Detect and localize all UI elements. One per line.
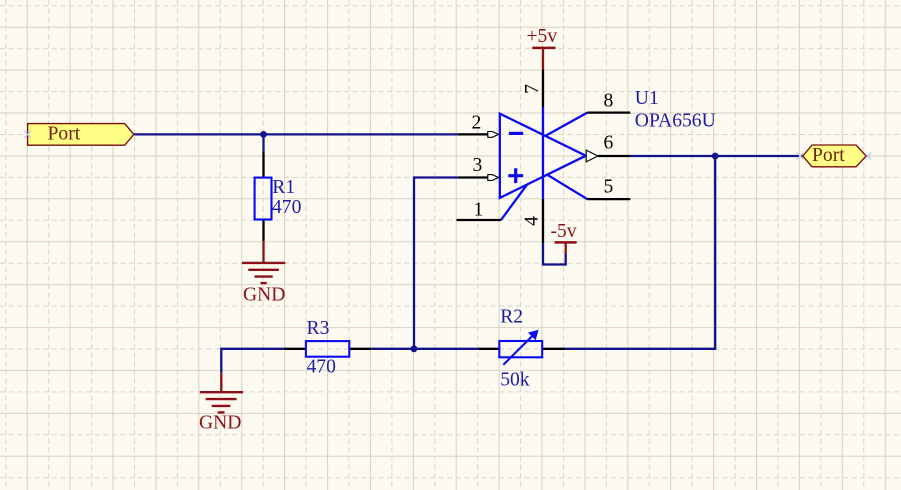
wire: R3 left to GND drop [221,349,285,373]
svg-text:Port: Port [48,124,81,145]
junction: feedback node [411,345,418,352]
resistor R2 potentiometer (horizontal) [478,330,565,365]
svg-text:R3: R3 [307,318,330,339]
svg-text:8: 8 [604,91,614,112]
power -5v symbol [555,242,577,253]
svg-text:3: 3 [473,155,483,176]
ground GND power symbol (feedback divider) [200,373,243,413]
connection cross at P2 right tip [864,153,871,160]
wire: R2 to feedback node [414,348,478,350]
ground GND power symbol below R1 [242,241,285,283]
svg-text:-5v: -5v [551,221,577,242]
pin 3 (non-inverting input) [458,175,499,181]
pin 5 (stub, lower right) [587,198,630,200]
junction: output node [712,153,719,160]
svg-text:GND: GND [243,284,285,305]
power +5v symbol [532,48,555,70]
svg-text:2: 2 [472,112,482,133]
junction: input node above R1 [260,131,267,138]
pin 7 (V+ supply pin) [542,70,544,108]
svg-text:+5v: +5v [527,26,558,47]
svg-text:5: 5 [604,176,614,197]
svg-text:R2: R2 [500,306,523,327]
connection cross at P2 left tip [797,153,804,160]
svg-text:GND: GND [199,413,241,434]
pin 1 (stub, lower left) [457,219,502,221]
pin 4 (V- supply pin) [542,199,544,244]
resistor R1 (vertical) [255,151,272,241]
wire: output net U1 pin6 to P2 [630,155,803,157]
pin 2 (inverting input) [458,132,499,138]
wire: feedback net to pin 3 [414,178,458,349]
svg-text:R1: R1 [272,177,295,198]
wire: output node down to feedback row [565,156,715,349]
svg-text:50k: 50k [500,370,530,391]
port P2 "Port" (output port, right) [803,145,866,167]
resistor R3 (horizontal) [285,341,371,357]
svg-text:1: 1 [474,200,484,221]
wire: drop from input node to R1 [262,134,264,151]
connection cross at P1 left edge [24,131,31,138]
svg-text:7: 7 [522,84,543,94]
svg-text:4: 4 [522,216,543,226]
svg-text:470: 470 [307,356,337,377]
pin 8 (stub, upper right) [587,111,630,113]
svg-text:470: 470 [272,197,302,218]
port P1 "Port" (input port, left) [28,124,134,146]
op-amp U1 triangle body [500,107,588,220]
svg-text:Port: Port [812,145,845,166]
svg-text:U1: U1 [635,88,659,109]
wire: input net P1 to U1 pin2 [134,133,458,135]
svg-text:6: 6 [604,132,614,153]
wire: pin 4 to -5v [543,243,566,264]
pin 6 (output) with arrow [586,150,630,162]
svg-text:OPA656U: OPA656U [635,110,716,131]
wire: feedback node to R3 [371,348,414,350]
